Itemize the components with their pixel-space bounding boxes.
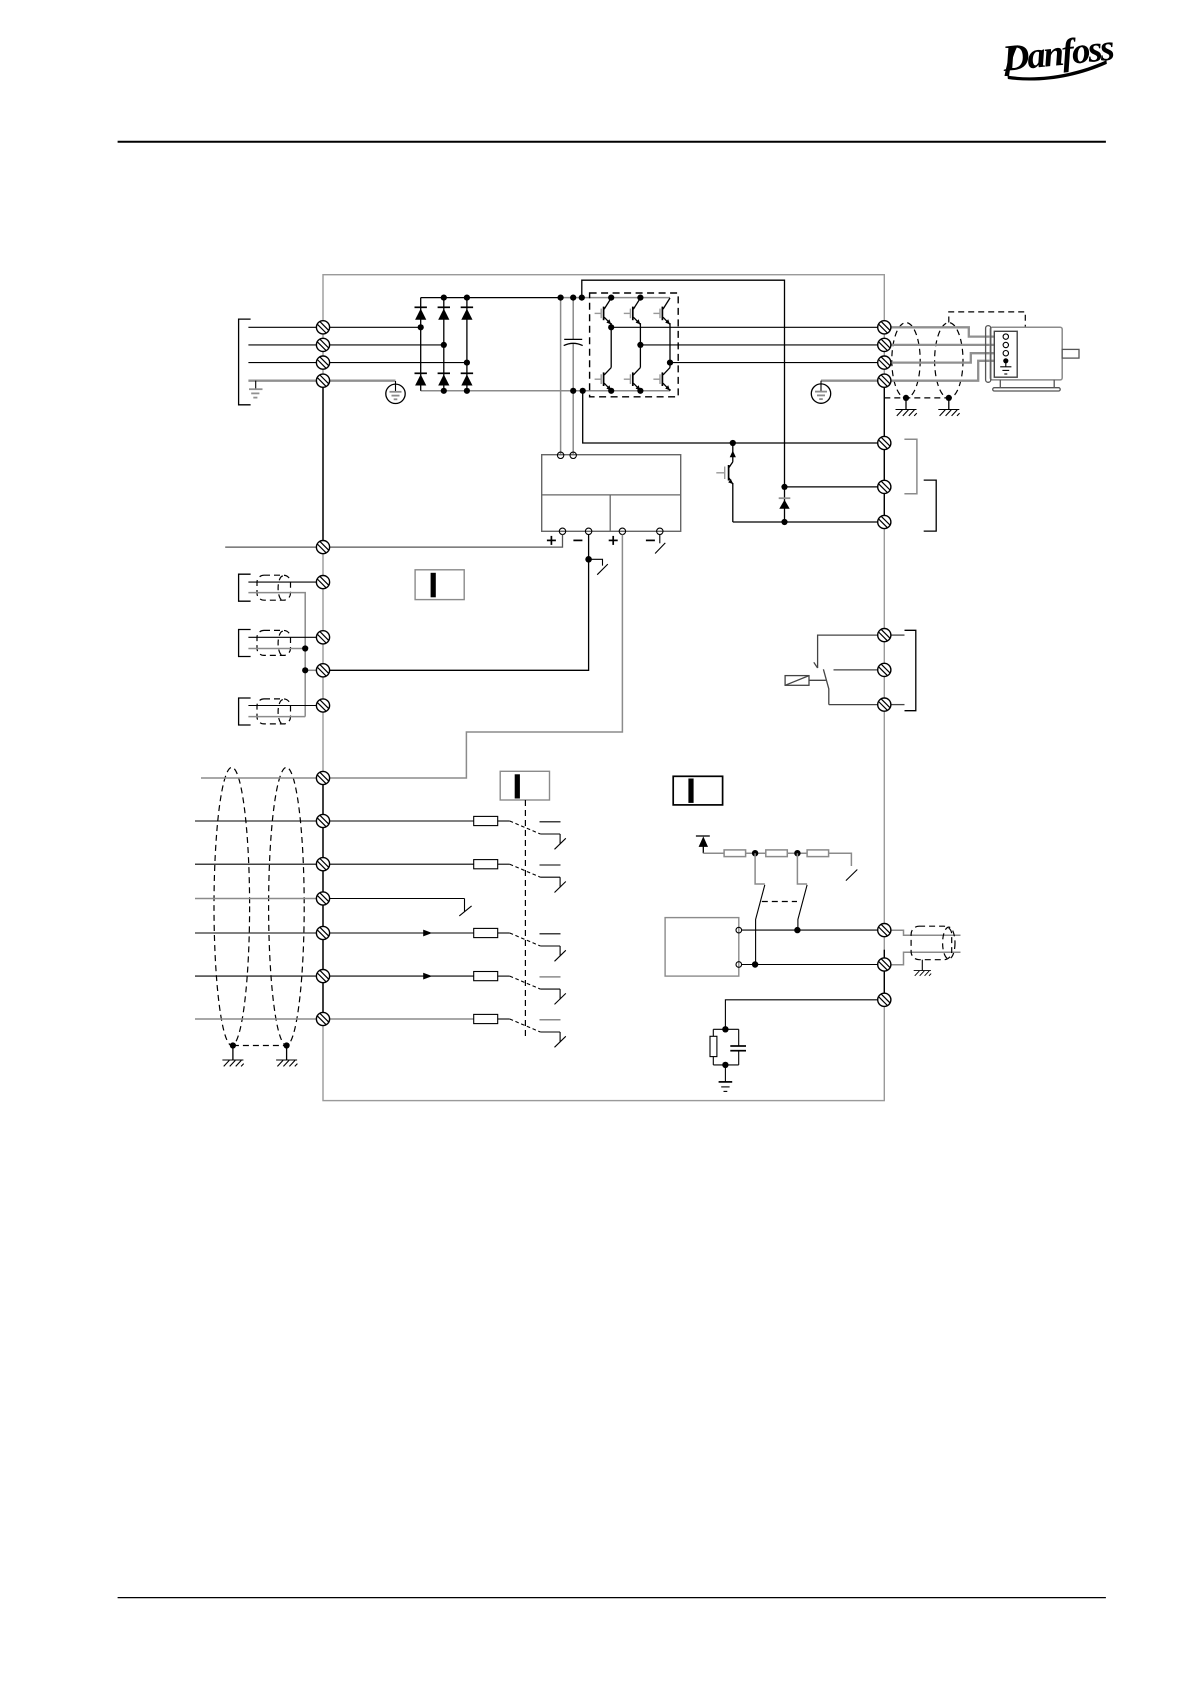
- motor body: [990, 327, 1062, 380]
- switch coupling dashed: [762, 901, 797, 903]
- earth fence RS485: [914, 971, 931, 976]
- relay stub 03: [891, 704, 905, 706]
- tap 2 drop: [797, 853, 807, 884]
- wire row 27: [195, 898, 317, 900]
- SMPS output pin 1: [559, 528, 565, 534]
- analog cable shield ellipse 2: [269, 767, 305, 1045]
- RC capacitor: [730, 1046, 746, 1051]
- mains input bracket: [239, 319, 251, 405]
- switch row 32: [498, 976, 566, 1004]
- brake terminal bus black segment right edge: [883, 381, 885, 522]
- shield ground stem 1: [905, 398, 907, 409]
- wire group3 B: [248, 716, 305, 718]
- terminal 33: [316, 1012, 329, 1025]
- relay contact tip: [814, 662, 818, 668]
- earth fence 2: [938, 410, 959, 416]
- terminal 37: [316, 631, 329, 644]
- wire phase U: [611, 326, 878, 328]
- resistor row 29: [474, 928, 498, 937]
- switch box A: [415, 570, 464, 600]
- inverter dashed box: [590, 293, 679, 397]
- label minus 1: [573, 539, 582, 541]
- wire row 32: [195, 975, 474, 977]
- motor wire V: [891, 344, 1002, 346]
- ground input PE stem: [255, 381, 257, 389]
- wire 69: [742, 964, 878, 966]
- wire analog common path T10: [330, 535, 623, 779]
- earth fence analog 1: [222, 1060, 243, 1066]
- IGBT V top: [624, 298, 641, 345]
- switch row 18: [498, 821, 566, 849]
- motor terminal 99 PE: [878, 374, 891, 387]
- terminal 68: [878, 924, 891, 937]
- protective earth circle output: [811, 381, 830, 404]
- shield ground dot 1: [903, 395, 909, 401]
- switch box B slider: [515, 774, 520, 798]
- relay terminal 01: [878, 629, 891, 642]
- ferrite group 2 sleeve: [257, 630, 291, 655]
- tap 1 drop: [755, 853, 765, 884]
- motor cable shield ellipse 1: [892, 323, 920, 399]
- shield ground stem 2: [948, 398, 950, 409]
- wire row 33: [195, 1018, 474, 1020]
- ferrite group 1 sleeve: [257, 575, 291, 600]
- analog shield dot 1: [230, 1042, 236, 1048]
- resistor row 19: [474, 860, 498, 869]
- label plus 1: [547, 536, 556, 545]
- junction dot bus T8: [302, 667, 308, 673]
- leg V mid vertical: [639, 345, 641, 368]
- divider end slash: [846, 870, 857, 881]
- analog cable shield ellipse 1: [214, 767, 250, 1045]
- rectifier branch 1: [420, 298, 422, 391]
- wire brake plus to terminal: [785, 486, 878, 488]
- frequency converter enclosure: [323, 275, 884, 1101]
- terminal 32: [316, 970, 329, 983]
- SMPS box: [542, 455, 681, 532]
- bottom rule: [118, 1597, 1106, 1599]
- switch box C slider: [688, 779, 693, 803]
- leg W mid vertical: [669, 363, 671, 368]
- switch row 33: [498, 1019, 566, 1047]
- SMPS minus2 chassis stub: [659, 535, 661, 544]
- analog shield stem 2: [286, 1046, 288, 1060]
- top bus grey segment to inverter: [561, 297, 670, 299]
- brake DC feed bottom link: [583, 391, 878, 443]
- RS485 shield ground stem: [921, 960, 923, 971]
- terminal 20: [316, 664, 329, 677]
- SMPS divider horizontal: [542, 494, 681, 496]
- earth fence 1: [896, 410, 917, 416]
- wire 24V return T8 to SMPS: [330, 535, 589, 671]
- motor terminal 98: [878, 356, 891, 369]
- analog shield dot 2: [284, 1042, 290, 1048]
- relay stub 01: [891, 634, 905, 636]
- motor foot 2: [1053, 380, 1055, 388]
- motor base plate: [993, 388, 1060, 391]
- SMPS minus2 chassis slash: [655, 543, 665, 554]
- bracket relay: [905, 630, 916, 710]
- analog shield dashed link: [233, 1045, 287, 1047]
- RS485 interface box: [665, 918, 739, 977]
- rectifier branch 3: [466, 298, 468, 391]
- analog shield stem 1: [232, 1046, 234, 1060]
- motor flange: [986, 326, 991, 383]
- terminal 19: [316, 858, 329, 871]
- switch row 19: [498, 864, 566, 892]
- relay terminal wire 01: [818, 635, 878, 668]
- wire group1 B: [248, 593, 305, 717]
- motor ground symbol: [1000, 361, 1011, 374]
- divider wire 3: [829, 853, 852, 866]
- protective earth circle input: [386, 381, 405, 404]
- terminal 13: [316, 576, 329, 589]
- mains terminal 93: [316, 356, 329, 369]
- motor PE dot: [1003, 358, 1008, 363]
- motor terminal 97: [878, 338, 891, 351]
- DC bus capacitor: [564, 338, 582, 340]
- arrow row 32: [423, 973, 432, 980]
- SMPS input pin 1: [557, 452, 563, 458]
- shield ground dot 2: [946, 395, 952, 401]
- wire PE input: [248, 380, 395, 382]
- wire row 19: [195, 863, 474, 865]
- divider tap dot 1: [752, 850, 758, 856]
- divider wire 1: [746, 852, 766, 854]
- brake chopper IGBT Q7: [716, 443, 736, 522]
- rectifier bottom bus: [421, 390, 670, 392]
- wire row 18: [195, 820, 474, 822]
- RC network frame: [713, 1029, 738, 1065]
- ferrite group 1 bracket: [239, 574, 251, 601]
- diode D4: [415, 373, 427, 385]
- terminal 39: [316, 699, 329, 712]
- ferrite group 2 sleeve rim: [278, 631, 283, 655]
- resistor row 18: [474, 816, 498, 825]
- DC link rail plus grey: [560, 298, 562, 456]
- wire bus to T8: [305, 669, 316, 671]
- resistor row 32: [474, 972, 498, 981]
- arrow row 29: [423, 930, 432, 937]
- wire group3 A: [248, 705, 316, 707]
- RS485 shield sleeve: [911, 926, 952, 960]
- motor cable shield ellipse 2: [935, 323, 963, 399]
- relay terminal 02: [878, 663, 891, 676]
- brake DC feed top link: [582, 280, 785, 487]
- motor wire U: [891, 327, 1002, 336]
- terminal 27: [316, 892, 329, 905]
- SMPS output pin 3: [619, 528, 625, 534]
- RS485 shield wire 68: [891, 930, 961, 935]
- IGBT U top: [595, 298, 612, 327]
- divider resistor 2: [766, 850, 788, 857]
- wire phase W: [670, 362, 878, 364]
- Danfoss logo: [1000, 27, 1117, 84]
- motor shaft: [1062, 349, 1079, 358]
- mains terminal 92: [316, 338, 329, 351]
- RFI switch dot: [585, 556, 592, 563]
- motor terminal 96: [878, 321, 891, 334]
- wire L1: [248, 326, 420, 328]
- divider resistor 3: [807, 850, 829, 857]
- wire L2: [248, 344, 443, 346]
- rectifier top bus: [421, 297, 561, 299]
- divider tap dot 2: [794, 850, 800, 856]
- junction dots inverter: [608, 295, 673, 394]
- brake terminal 82: [878, 480, 891, 493]
- relay lever: [823, 669, 828, 704]
- S201 lever: [756, 885, 765, 965]
- RC network top dot: [722, 1026, 728, 1032]
- wire 24V supply to T5: [225, 535, 562, 548]
- ground input PE bars: [249, 389, 263, 397]
- junction dot 68: [794, 927, 800, 933]
- rectifier branch 2: [443, 298, 445, 391]
- divider resistor 1: [724, 850, 746, 857]
- relay coil K1: [785, 676, 826, 686]
- switch row 27 stub: [459, 899, 471, 916]
- IGBT W bottom: [653, 368, 670, 391]
- wire row 29: [195, 932, 474, 934]
- switch row 29: [498, 933, 566, 961]
- motor terminal box: [994, 331, 1017, 377]
- diode D3: [461, 307, 473, 319]
- wire PE output: [821, 380, 884, 382]
- divider wire 2: [787, 852, 807, 854]
- bracket brake resistor grey: [904, 439, 917, 493]
- wire 68: [742, 929, 878, 931]
- motor terminal V: [1003, 342, 1008, 347]
- DC link rail minus grey: [572, 298, 574, 340]
- ferrite group 3 sleeve rim: [278, 700, 283, 724]
- mains terminal 95 PE: [316, 374, 329, 387]
- wire group1 A: [248, 581, 316, 583]
- terminal 55: [316, 771, 329, 784]
- divider feed wire: [703, 852, 724, 854]
- RC bottom dot: [722, 1062, 728, 1068]
- motor terminal U: [1003, 334, 1008, 339]
- S202 lever: [798, 885, 807, 930]
- IGBT V bottom: [624, 368, 641, 391]
- motor wire PE: [891, 361, 1005, 381]
- digital terminal bus black segment left edge: [322, 778, 324, 1019]
- diode D2: [438, 307, 450, 319]
- wire phase V: [640, 344, 877, 346]
- leg U mid vertical: [610, 327, 612, 367]
- brake terminal 83: [878, 515, 891, 528]
- ferrite group 1 sleeve rim: [278, 576, 283, 600]
- brake terminal 81: [878, 436, 891, 449]
- motor wire W: [891, 353, 1002, 362]
- IGBT U bottom: [595, 368, 612, 391]
- wire T10 stub: [201, 777, 317, 779]
- IGBT W top: [653, 298, 670, 363]
- ferrite group 3 bracket: [239, 698, 251, 725]
- motor foot 1: [999, 380, 1001, 388]
- terminal 29: [316, 926, 329, 939]
- serial terminal bus black segment right edge: [883, 950, 885, 1000]
- RC ground: [719, 1065, 733, 1092]
- junction dots DC link: [558, 295, 586, 394]
- relay terminal wire 02: [834, 669, 878, 671]
- RS485 pin 68: [736, 927, 742, 933]
- diode D6: [461, 373, 473, 385]
- RFI switch symbol: [589, 559, 608, 574]
- top rule: [118, 141, 1106, 143]
- ferrite group 3 sleeve: [257, 699, 291, 724]
- switch box A slider: [431, 573, 436, 598]
- supply arrow 10V: [696, 836, 710, 853]
- label minus 2: [646, 539, 655, 541]
- SMPS input pin 2: [570, 452, 576, 458]
- junction dot 69: [752, 961, 758, 967]
- RS485 pin 69: [736, 962, 742, 968]
- terminal 12: [316, 541, 329, 554]
- terminal 18: [316, 814, 329, 827]
- switch box B: [500, 771, 549, 800]
- junction dot bus group2: [302, 645, 308, 651]
- wire L3: [248, 362, 467, 364]
- SMPS output pin 4: [657, 528, 663, 534]
- shield to motor frame dashed bond: [949, 312, 1026, 327]
- relay terminal wire 03: [829, 704, 878, 706]
- diode D5: [438, 373, 450, 385]
- SMPS divider vertical: [609, 495, 611, 531]
- earth fence analog 2: [276, 1060, 297, 1066]
- relay terminal 03: [878, 698, 891, 711]
- motor terminal W: [1003, 351, 1008, 356]
- motor cable shield ground dashed link: [884, 397, 949, 399]
- PE bus black segment upper left edge: [322, 381, 324, 547]
- junction dots brake: [730, 440, 788, 525]
- resistor row 33: [474, 1014, 498, 1023]
- wire group2 B: [248, 648, 305, 650]
- diode D1: [415, 307, 427, 319]
- terminal 69: [878, 958, 891, 971]
- RS485 shield rim: [943, 927, 955, 959]
- RS485 shield wire 69: [891, 952, 961, 965]
- SMPS output pin 2: [585, 528, 591, 534]
- wire group2 A: [248, 636, 316, 638]
- brake lower wire: [733, 521, 878, 523]
- bracket load share black: [924, 480, 937, 531]
- DI dashed select line: [524, 800, 526, 1040]
- ferrite group 2 bracket: [239, 630, 251, 657]
- terminal 61: [878, 993, 891, 1006]
- switch box C: [673, 776, 722, 805]
- brake diode D7: [784, 487, 786, 522]
- wire 61: [725, 1000, 877, 1030]
- label plus 2: [609, 536, 618, 545]
- mains terminal 91: [316, 321, 329, 334]
- RC resistor: [710, 1036, 717, 1056]
- junction dots rectifier: [418, 295, 470, 394]
